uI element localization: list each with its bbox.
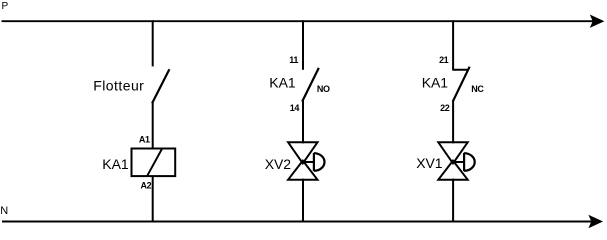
svg-text:Flotteur: Flotteur bbox=[93, 78, 144, 94]
wire branch1 middle bbox=[152, 102, 154, 149]
svg-text:NC: NC bbox=[471, 84, 484, 94]
valve XV2 bbox=[288, 142, 324, 179]
wire branch3 top bbox=[452, 20, 454, 70]
wire branch2 middle bbox=[302, 100, 304, 143]
svg-text:NO: NO bbox=[317, 84, 330, 94]
contact KA1 NC blade bbox=[453, 67, 470, 102]
wire branch3 bottom bbox=[452, 179, 454, 223]
svg-text:21: 21 bbox=[439, 55, 449, 65]
contact KA1 NO blade bbox=[302, 68, 319, 102]
svg-text:XV2: XV2 bbox=[265, 156, 292, 172]
wire P rail bbox=[2, 20, 597, 22]
wire branch3 middle bbox=[452, 100, 454, 143]
wire N rail bbox=[2, 221, 595, 223]
arrow P rail bbox=[590, 15, 605, 28]
svg-text:XV1: XV1 bbox=[416, 155, 443, 171]
svg-text:11: 11 bbox=[289, 55, 298, 65]
valve XV1 bbox=[438, 142, 474, 179]
svg-text:KA1: KA1 bbox=[422, 74, 449, 90]
wire branch2 top bbox=[302, 20, 304, 70]
svg-text:14: 14 bbox=[290, 103, 300, 113]
wire branch1 bottom bbox=[152, 176, 154, 222]
wire branch2 bottom bbox=[302, 179, 304, 223]
contact KA1 NC bar bbox=[452, 69, 468, 71]
switch Flotteur blade bbox=[152, 69, 169, 103]
svg-text:N: N bbox=[0, 205, 8, 217]
svg-text:22: 22 bbox=[440, 103, 450, 113]
svg-text:KA1: KA1 bbox=[269, 75, 296, 91]
svg-text:A2: A2 bbox=[140, 181, 151, 191]
coil KA1 bbox=[132, 149, 176, 177]
svg-text:A1: A1 bbox=[139, 135, 150, 145]
arrow N rail bbox=[588, 215, 603, 228]
svg-text:P: P bbox=[2, 1, 9, 12]
svg-text:KA1: KA1 bbox=[102, 156, 129, 172]
wire branch1 top bbox=[152, 20, 154, 66]
